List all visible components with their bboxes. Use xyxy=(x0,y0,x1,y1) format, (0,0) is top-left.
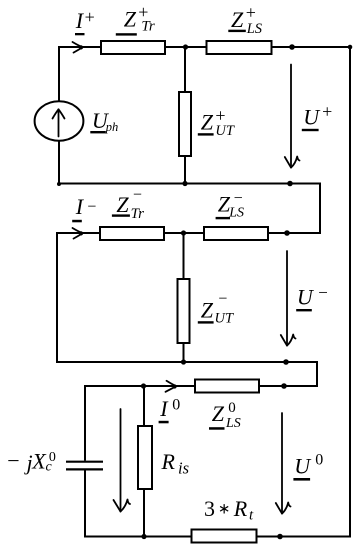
svg-text:Tr: Tr xyxy=(141,18,155,34)
svg-text:is: is xyxy=(178,458,189,477)
svg-text:−: − xyxy=(133,186,142,203)
svg-text:+: + xyxy=(322,101,332,121)
svg-text:Z: Z xyxy=(116,192,129,217)
svg-text:+: + xyxy=(85,7,95,27)
svg-text:0: 0 xyxy=(172,396,180,413)
svg-text:I: I xyxy=(75,8,85,33)
svg-text:Z: Z xyxy=(201,110,214,135)
svg-text:ph: ph xyxy=(105,120,119,134)
svg-text:j: j xyxy=(24,450,33,475)
svg-text:3: 3 xyxy=(204,496,215,521)
svg-text:R: R xyxy=(233,496,248,521)
svg-text:−: − xyxy=(87,199,96,216)
svg-text:UT: UT xyxy=(215,311,234,327)
svg-text:−: − xyxy=(218,290,227,307)
svg-text:LS: LS xyxy=(228,205,244,220)
svg-text:0: 0 xyxy=(315,452,323,469)
svg-text:+: + xyxy=(246,3,256,23)
svg-text:−: − xyxy=(318,283,328,302)
svg-text:0: 0 xyxy=(228,400,236,416)
svg-text:Z: Z xyxy=(231,7,244,32)
svg-text:I: I xyxy=(75,194,85,219)
svg-text:−: − xyxy=(7,448,19,473)
svg-text:Tr: Tr xyxy=(131,206,145,222)
svg-text:UT: UT xyxy=(215,123,234,139)
svg-text:t: t xyxy=(249,508,254,524)
svg-text:∗: ∗ xyxy=(218,502,231,518)
svg-text:c: c xyxy=(46,460,53,475)
svg-text:R: R xyxy=(161,449,176,474)
svg-text:LS: LS xyxy=(225,416,241,431)
svg-text:LS: LS xyxy=(246,21,263,37)
svg-text:Z: Z xyxy=(124,6,137,31)
svg-text:Z: Z xyxy=(212,401,225,426)
svg-text:U: U xyxy=(303,104,321,129)
svg-text:U: U xyxy=(294,453,312,478)
svg-text:I: I xyxy=(159,396,169,421)
svg-text:Z: Z xyxy=(201,298,214,323)
svg-text:U: U xyxy=(297,284,315,309)
